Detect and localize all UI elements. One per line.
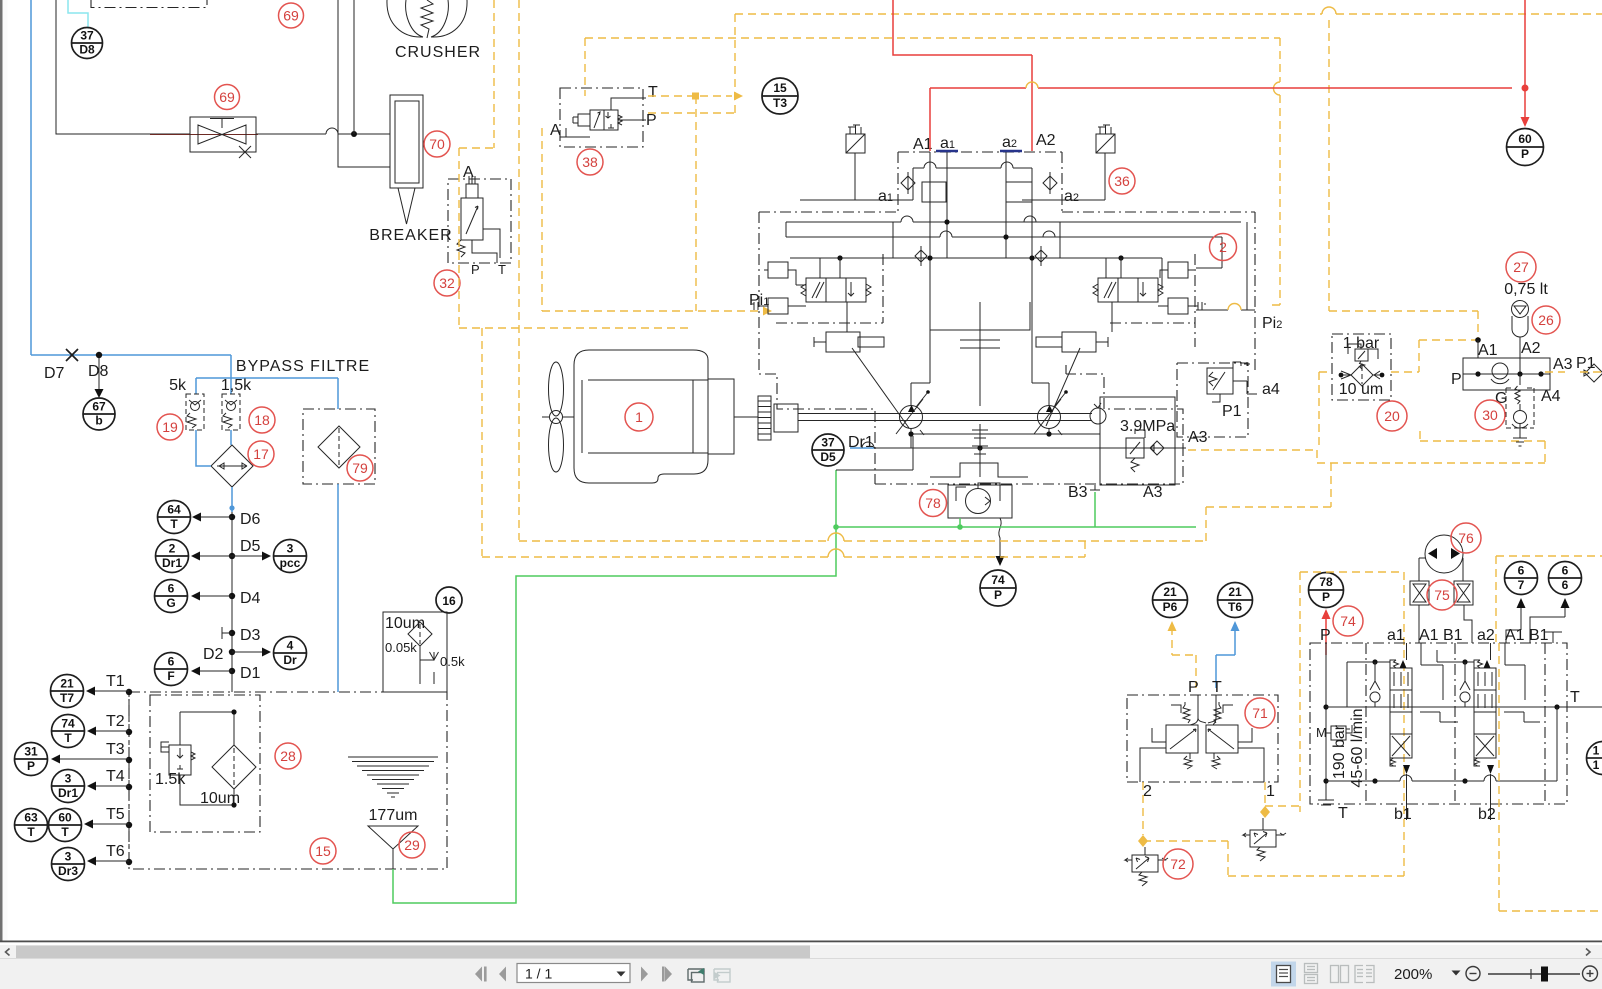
svg-text:a2: a2 — [1477, 627, 1495, 644]
node T3 — [126, 757, 132, 763]
svg-text:2: 2 — [1219, 239, 1227, 255]
svg-text:38: 38 — [582, 154, 598, 170]
clipped node circle right edge — [1587, 742, 1602, 775]
svg-text:A3: A3 — [1553, 356, 1573, 373]
svg-text:T3: T3 — [773, 96, 787, 110]
check diamonds top — [901, 172, 1057, 194]
spool2 check — [1460, 681, 1470, 702]
svg-text:T6: T6 — [1228, 600, 1242, 614]
pilot circuit box — [1094, 403, 1101, 408]
svg-text:10 um: 10 um — [1339, 381, 1383, 398]
svg-text:75: 75 — [1434, 587, 1450, 603]
svg-text:30: 30 — [1482, 407, 1498, 423]
dash-dot box fragment top-left — [91, 0, 207, 8]
svg-text:F: F — [167, 669, 174, 683]
wire crusher return loop — [56, 0, 326, 134]
svg-text:T6: T6 — [106, 843, 125, 860]
page layout icon 1 (active) — [1271, 962, 1296, 987]
servo link diagonals — [852, 348, 1080, 428]
svg-text:67: 67 — [92, 400, 106, 414]
svg-text:70: 70 — [429, 136, 445, 152]
svg-text:1,5k: 1,5k — [221, 377, 252, 394]
next-view icon (disabled) — [714, 969, 730, 982]
wire yellow P-line — [648, 14, 735, 113]
svg-text:BREAKER: BREAKER — [369, 227, 452, 244]
svg-text:69: 69 — [219, 89, 235, 105]
P feed and relief — [1318, 643, 1334, 805]
pilot gear pump — [1090, 408, 1106, 424]
svg-text:63: 63 — [24, 811, 38, 825]
wire hop at x332 — [326, 128, 390, 134]
svg-text:26: 26 — [1538, 312, 1554, 328]
check valve 18 — [222, 394, 240, 430]
shaft coupling gear — [758, 396, 771, 440]
wire arrow D8 to 67b — [98, 358, 100, 390]
svg-text:74: 74 — [61, 717, 75, 731]
zoom in — [1583, 966, 1598, 981]
node D1 — [229, 668, 235, 674]
engine 1 body — [574, 350, 708, 483]
svg-text:CRUSHER: CRUSHER — [395, 44, 481, 61]
valve 38 box — [560, 88, 643, 147]
svg-text:Dr1: Dr1 — [58, 786, 78, 800]
svg-text:60: 60 — [58, 811, 72, 825]
svg-text:78: 78 — [1319, 575, 1333, 589]
page layout icon 3 — [1331, 966, 1349, 983]
svg-text:6: 6 — [168, 655, 175, 669]
wire yellow right riser to Pi2 — [1268, 38, 1280, 305]
wire cyan elbow to 37/D8 — [68, 0, 88, 27]
svg-text:T: T — [1570, 689, 1580, 706]
nav next buttons — [641, 967, 672, 982]
wire maroon overlay through valve 69 — [150, 134, 258, 136]
wire blue main left vertical — [30, 0, 32, 355]
crusher spring zigzag — [421, 0, 433, 38]
servo cylinders — [826, 332, 860, 352]
balloon 32 — [434, 270, 460, 296]
svg-text:P: P — [1322, 590, 1330, 604]
svg-text:Dr: Dr — [283, 653, 297, 667]
pump control left spool — [806, 278, 866, 302]
svg-text:72: 72 — [1170, 856, 1186, 872]
svg-text:P: P — [27, 759, 35, 773]
solenoid 36 right — [1096, 134, 1115, 153]
svg-text:69: 69 — [283, 8, 299, 24]
center link column — [930, 302, 1028, 477]
svg-text:T5: T5 — [106, 806, 125, 823]
svg-text:60: 60 — [1518, 132, 1532, 146]
engine fan — [549, 362, 564, 416]
svg-text:1: 1 — [635, 409, 643, 425]
svg-text:T: T — [170, 517, 178, 531]
svg-text:T: T — [61, 825, 69, 839]
page layout icon 2 — [1305, 964, 1318, 984]
prev-view icon — [688, 969, 704, 982]
throttle valve 72 — [1144, 847, 1146, 855]
balloon 79 — [347, 455, 373, 481]
svg-text:A: A — [550, 122, 561, 139]
balloon 17 — [248, 441, 274, 467]
node circle 21/T6 — [1218, 583, 1253, 618]
spool1 check — [1370, 681, 1380, 702]
wire yellow b2 drop — [1499, 643, 1602, 911]
breaker tool triangle — [398, 188, 415, 224]
balloon 15 — [310, 838, 336, 864]
svg-text:27: 27 — [1513, 259, 1529, 275]
svg-text:19: 19 — [162, 419, 178, 435]
wire yellow to P6 — [1172, 627, 1196, 688]
svg-text:T7: T7 — [60, 691, 74, 705]
svg-text:P6: P6 — [1163, 600, 1178, 614]
svg-text:A3: A3 — [1188, 429, 1208, 446]
svg-text:6: 6 — [1518, 564, 1525, 578]
svg-text:T: T — [648, 84, 658, 101]
wire blue D7/D8 header — [31, 355, 231, 378]
svg-text:74: 74 — [1340, 613, 1356, 629]
svg-text:6: 6 — [1562, 578, 1569, 592]
wire red supply drop — [893, 0, 1525, 151]
relief 1.5k — [169, 745, 191, 775]
spool 2 — [1474, 668, 1496, 758]
valve 32 reducing valve — [461, 198, 483, 240]
svg-text:A2: A2 — [1036, 132, 1056, 149]
balloon 69 valve — [215, 85, 240, 110]
spool 2 b2 — [1490, 774, 1492, 820]
svg-text:B3: B3 — [1068, 484, 1088, 501]
svg-text:3: 3 — [65, 850, 72, 864]
svg-text:29: 29 — [404, 837, 420, 853]
pump drive shaft — [798, 414, 1092, 421]
svg-text:1.5k: 1.5k — [155, 771, 186, 788]
wire D column — [231, 512, 233, 692]
balloon 70 — [424, 131, 450, 157]
svg-text:b2: b2 — [1478, 806, 1496, 823]
valve 38 3/2 valve — [590, 110, 604, 130]
node circle 21/P6 — [1153, 583, 1188, 618]
zoom slider — [1488, 973, 1580, 975]
accumulator stem — [1519, 342, 1521, 358]
node T6 — [126, 859, 132, 865]
svg-text:15: 15 — [315, 843, 331, 859]
wire yellow pilot drop Pi1 — [542, 96, 762, 311]
svg-text:21: 21 — [60, 677, 74, 691]
svg-text:b: b — [95, 414, 102, 428]
svg-text:6: 6 — [1562, 564, 1569, 578]
svg-text:D6: D6 — [240, 511, 261, 528]
balloon 74 — [1333, 606, 1363, 636]
svg-text:P: P — [1521, 147, 1529, 161]
wire red to 78/P — [1325, 613, 1327, 655]
node circle 3/pcc — [274, 540, 307, 573]
svg-text:A3: A3 — [1143, 484, 1163, 501]
svg-text:T: T — [64, 731, 72, 745]
svg-text:20: 20 — [1384, 408, 1400, 424]
zoom out — [1466, 967, 1480, 981]
svg-text:Dr1: Dr1 — [162, 556, 182, 570]
node T2 — [126, 729, 132, 735]
viewport bottom edge — [0, 941, 1602, 943]
valve 38 port lines — [560, 98, 646, 137]
pump 1 variable — [900, 406, 923, 429]
port rects — [922, 182, 946, 202]
node circle 2/Dr1 — [156, 540, 189, 573]
svg-text:P: P — [994, 588, 1002, 602]
svg-text:0.5k: 0.5k — [440, 654, 465, 669]
svg-text:71: 71 — [1252, 705, 1268, 721]
svg-text:BYPASS FILTRE: BYPASS FILTRE — [236, 358, 370, 375]
balloon 19 — [157, 414, 183, 440]
svg-text:T3: T3 — [106, 741, 125, 758]
svg-text:2: 2 — [1143, 783, 1152, 800]
svg-text:a1: a1 — [1387, 627, 1405, 644]
pump control right spool — [1098, 278, 1158, 302]
node T4 — [126, 784, 132, 790]
svg-text:G: G — [166, 596, 175, 610]
pump control sub-boxes — [776, 254, 1195, 347]
node D2 — [229, 649, 235, 655]
node circle 6/7 — [1505, 562, 1538, 595]
svg-text:P: P — [471, 262, 480, 277]
svg-text:A1: A1 — [1478, 342, 1498, 359]
svg-text:16: 16 — [442, 594, 456, 608]
node circle 6/G — [155, 580, 188, 613]
svg-text:31: 31 — [24, 745, 38, 759]
wire yellow pilot drops — [1265, 782, 1300, 806]
balloon 38 — [577, 149, 603, 175]
filter diamond 28 — [212, 745, 256, 789]
nav first-page button — [475, 967, 506, 982]
balloon 29 — [399, 832, 425, 858]
balloon 18 — [249, 407, 275, 433]
svg-text:b1: b1 — [1394, 806, 1412, 823]
svg-text:A1: A1 — [1505, 627, 1525, 644]
svg-text:17: 17 — [253, 446, 269, 462]
relief pair inside 71 — [1171, 702, 1190, 723]
svg-text:P: P — [1320, 627, 1331, 644]
pilot caps right — [1168, 262, 1188, 278]
svg-text:190 bar: 190 bar — [1331, 724, 1348, 779]
pilot caps left — [768, 262, 788, 278]
svg-text:0,75 lt: 0,75 lt — [1504, 281, 1548, 298]
svg-text:6: 6 — [168, 582, 175, 596]
svg-text:T: T — [1212, 679, 1222, 696]
svg-text:D4: D4 — [240, 590, 261, 607]
manifold 30 — [1463, 358, 1550, 390]
navy port marks — [936, 150, 958, 153]
node circle 6/F — [155, 653, 188, 686]
spool 1 — [1390, 668, 1412, 758]
svg-text:A2: A2 — [1521, 340, 1541, 357]
main control valve bank outer — [1310, 643, 1567, 804]
valve 32 box — [448, 179, 511, 263]
svg-text:1: 1 — [1593, 758, 1600, 772]
wire Pi2 hop — [1228, 304, 1241, 310]
svg-text:21: 21 — [1228, 585, 1242, 599]
node circle 64/T — [158, 501, 191, 534]
svg-text:T: T — [498, 262, 506, 277]
balloon 36 — [1109, 168, 1135, 194]
node circle 15/T3 — [762, 78, 798, 114]
balloon 1 — [625, 403, 653, 431]
svg-text:64: 64 — [167, 503, 181, 517]
svg-text:T2: T2 — [106, 713, 125, 730]
balloon 2 — [1210, 234, 1237, 261]
filter 20 (1 bar / 10um) — [1332, 334, 1391, 400]
svg-text:pcc: pcc — [280, 556, 301, 570]
wire blue to T6 — [1216, 627, 1235, 688]
wire crusher feed verticals — [338, 0, 390, 167]
svg-text:1 / 1: 1 / 1 — [525, 966, 552, 982]
solenoid 36 left — [846, 134, 865, 153]
balloon 69 upper — [279, 3, 304, 28]
node circle 37/D5 — [812, 434, 844, 466]
node circle 60/P — [1507, 129, 1544, 166]
balloon 78 — [920, 490, 947, 517]
bottom rail — [1326, 707, 1557, 781]
block internal rails — [911, 152, 1049, 406]
wires up to 6/7 6/6 — [1506, 605, 1565, 643]
crusher motor body — [387, 0, 467, 37]
node D7 — [66, 349, 78, 361]
svg-text:P1: P1 — [1222, 403, 1242, 420]
tank box 15 — [129, 692, 447, 869]
node D8 — [96, 352, 102, 358]
svg-text:28: 28 — [280, 748, 296, 764]
node circle 4/Dr — [274, 637, 307, 670]
svg-text:P: P — [1188, 679, 1199, 696]
filter box 16 — [383, 612, 447, 692]
node D5 — [229, 553, 235, 559]
wire blue shuttle drop — [231, 487, 233, 512]
svg-text:37: 37 — [821, 436, 835, 450]
svg-text:74: 74 — [991, 573, 1005, 587]
svg-text:D8: D8 — [79, 43, 95, 57]
svg-text:D7: D7 — [44, 365, 65, 382]
svg-text:18: 18 — [254, 412, 270, 428]
wire blue filter drop — [337, 484, 339, 692]
svg-text:D2: D2 — [203, 646, 224, 663]
filter 28 plumbing — [180, 712, 234, 805]
svg-text:A4: A4 — [1541, 388, 1561, 405]
page layout icon 4 — [1355, 966, 1374, 983]
motor to valve lines — [1419, 558, 1463, 581]
svg-text:2: 2 — [169, 542, 176, 556]
wire yellow A-line to pump pilot — [459, 328, 690, 556]
node D3 plugged — [229, 630, 235, 636]
spool 1 b1 — [1406, 774, 1408, 820]
node T5 — [126, 822, 132, 828]
svg-text:T: T — [1338, 805, 1348, 822]
svg-text:4: 4 — [287, 639, 294, 653]
pilot block 71 — [1127, 695, 1278, 782]
junction dots rails — [944, 219, 949, 224]
T rail — [1326, 706, 1602, 708]
bottom toolbar — [0, 959, 1602, 989]
node circle 67/b — [83, 398, 115, 430]
junction dot — [351, 131, 357, 137]
svg-text:21: 21 — [1163, 585, 1177, 599]
svg-text:177um: 177um — [369, 807, 418, 824]
svg-text:3: 3 — [287, 542, 294, 556]
svg-text:79: 79 — [352, 460, 368, 476]
throttle valves 75 — [1410, 581, 1429, 605]
pump 2 variable — [1038, 406, 1061, 429]
filter box 28 — [150, 695, 260, 832]
window left edge — [0, 0, 3, 941]
svg-text:B1: B1 — [1443, 627, 1463, 644]
svg-text:T1: T1 — [106, 673, 125, 690]
svg-text:32: 32 — [439, 275, 455, 291]
wire green drain — [393, 470, 1196, 903]
strainer 29 stack — [348, 757, 438, 797]
wire blue bypass top — [196, 378, 338, 409]
svg-text:1: 1 — [1266, 783, 1275, 800]
svg-text:37: 37 — [80, 29, 94, 43]
svg-text:B1: B1 — [1529, 627, 1549, 644]
svg-text:D8: D8 — [88, 363, 109, 380]
svg-text:3: 3 — [65, 772, 72, 786]
svg-text:a4: a4 — [1262, 381, 1280, 398]
svg-text:P1: P1 — [1576, 355, 1596, 372]
wire yellow left risers — [459, 0, 519, 540]
wire yellow drain corridor — [482, 463, 1331, 557]
svg-text:P: P — [646, 112, 657, 129]
throttle valve 73 — [1262, 818, 1264, 830]
G check valve — [1515, 374, 1520, 410]
node D6 — [229, 514, 235, 520]
wire yellow T to 15/T3 — [648, 95, 732, 97]
svg-text:45-60 l/min: 45-60 l/min — [1349, 708, 1366, 787]
svg-text:78: 78 — [925, 495, 941, 511]
svg-text:15: 15 — [773, 81, 787, 95]
svg-text:0.05k: 0.05k — [385, 640, 417, 655]
pump block outer dashdot — [759, 152, 1255, 484]
svg-text:Dr1: Dr1 — [848, 434, 874, 451]
shuttle diamond 17 — [211, 445, 253, 487]
node T1 — [126, 689, 132, 695]
svg-text:P: P — [1451, 371, 1462, 388]
svg-text:D5: D5 — [240, 538, 261, 555]
svg-text:36: 36 — [1114, 173, 1130, 189]
svg-text:D3: D3 — [240, 627, 261, 644]
node D4 — [229, 593, 235, 599]
breaker cylinder — [390, 95, 423, 188]
svg-text:1: 1 — [1593, 744, 1600, 758]
P1 pressure valve — [1207, 368, 1233, 394]
wire yellow box around 74 — [1300, 556, 1602, 876]
node circle 6/6 — [1549, 562, 1582, 595]
node circle 78/P — [1309, 573, 1344, 608]
svg-text:T4: T4 — [106, 768, 125, 785]
check valve 19 — [186, 394, 204, 430]
svg-text:Dr3: Dr3 — [58, 864, 78, 878]
valve 69 shutoff — [190, 117, 256, 152]
valve 78 flushing — [948, 485, 1012, 518]
svg-text:200%: 200% — [1394, 966, 1432, 983]
strainer funnel — [368, 826, 418, 849]
svg-text:76: 76 — [1458, 530, 1474, 546]
svg-text:5k: 5k — [169, 377, 187, 394]
page number combo — [517, 964, 630, 983]
svg-text:D1: D1 — [240, 665, 261, 682]
balloon 27 + accumulator 26 — [1506, 252, 1536, 282]
svg-text:7: 7 — [1518, 578, 1525, 592]
motor 76 — [1425, 535, 1463, 573]
tank T riser dashed — [128, 692, 130, 862]
node circle 37/D8 — [72, 28, 103, 59]
svg-text:A1: A1 — [1419, 627, 1439, 644]
svg-text:M: M — [1316, 725, 1327, 740]
